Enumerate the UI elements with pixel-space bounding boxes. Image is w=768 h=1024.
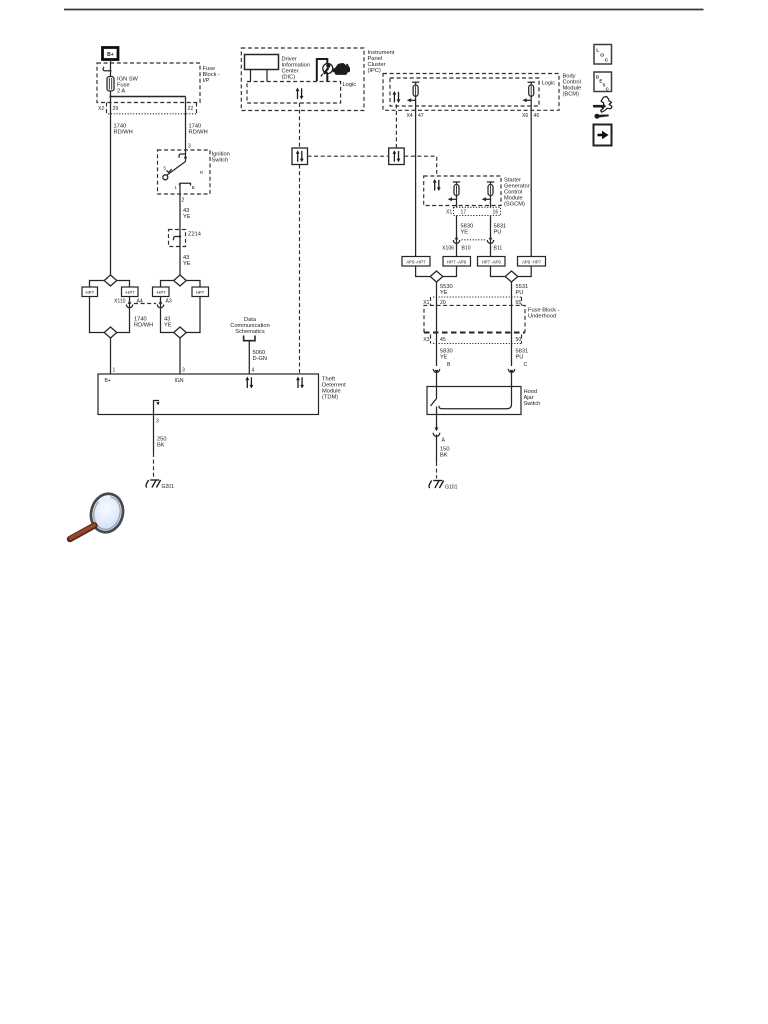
security car icon — [333, 63, 350, 75]
fuse clip hook — [103, 67, 111, 71]
svg-text:C: C — [524, 362, 528, 368]
svg-text:D-GN: D-GN — [253, 356, 268, 362]
body control module box — [383, 74, 559, 111]
svg-text:47: 47 — [418, 113, 424, 119]
ignition switch box — [158, 150, 211, 194]
svg-text:(BCM): (BCM) — [563, 92, 580, 98]
svg-text:X2: X2 — [98, 106, 104, 112]
connector clips at hood switch — [433, 369, 440, 374]
svg-text:2 A: 2 A — [117, 89, 125, 95]
wire 1740 RD/WH left — [110, 97, 112, 276]
IPC serial data arrows — [296, 88, 304, 100]
splice diamond upper right — [174, 275, 187, 286]
theft deterrent module box — [98, 374, 319, 415]
BCM serial data arrows — [393, 91, 401, 103]
fuse block underhood box — [424, 305, 525, 332]
svg-text:3: 3 — [188, 144, 191, 150]
svg-text:YE: YE — [164, 323, 172, 329]
svg-text:A4: A4 — [137, 299, 143, 305]
svg-text:L: L — [596, 48, 599, 54]
connector box HP7-AP9 b — [478, 257, 506, 267]
comm node box right — [389, 148, 405, 165]
svg-text:A3: A3 — [166, 299, 172, 305]
SGCM driver pin 17 — [448, 182, 461, 207]
svg-text:(DIC): (DIC) — [282, 75, 296, 81]
wire to TDM pin3 — [179, 338, 181, 374]
TDM internal switch to pin3 — [154, 401, 160, 415]
merge wires to right diamonds — [416, 266, 431, 277]
hood switch output — [436, 407, 438, 431]
IPC logic box — [247, 82, 341, 104]
icon arrow box — [594, 125, 612, 146]
wire 250 BK — [153, 415, 155, 454]
inline connector X110 pins A4 A3 — [129, 297, 131, 328]
fuse block IP dashed box — [97, 63, 200, 103]
svg-text:(SGCM): (SGCM) — [504, 202, 525, 208]
icon DESC box — [594, 72, 612, 92]
svg-text:1: 1 — [113, 368, 116, 374]
svg-text:3: 3 — [156, 419, 159, 425]
wire 5531 PU — [511, 282, 513, 366]
wire 5530 YE — [436, 282, 438, 366]
splice diamond lower right — [174, 327, 187, 338]
svg-text:G201: G201 — [162, 484, 175, 490]
svg-text:X110: X110 — [114, 299, 126, 305]
security indicator icon — [317, 59, 333, 81]
svg-text:X106: X106 — [442, 246, 454, 252]
SGCM driver pin 16 — [482, 182, 495, 207]
svg-text:YE: YE — [440, 355, 448, 361]
svg-text:RD/WH: RD/WH — [189, 130, 208, 136]
starter generator control module box — [424, 176, 501, 206]
icon LOC box — [594, 45, 612, 65]
underhood connector row top — [433, 296, 522, 298]
svg-text:50: 50 — [516, 337, 522, 343]
wire 43 YE upper — [179, 194, 181, 230]
instrument panel cluster box — [241, 48, 364, 111]
dashed serial data wire IPC down — [299, 103, 301, 148]
hood ajar switch box — [427, 387, 521, 415]
BCM driver right pin 46 — [522, 82, 535, 110]
svg-text:HP7 -AP9: HP7 -AP9 — [447, 260, 467, 265]
branch wires to HP7 row — [90, 281, 105, 288]
svg-text:(TDM): (TDM) — [322, 395, 338, 401]
connector box HP7-AP9 a — [443, 257, 471, 267]
wire 43 YE lower — [179, 247, 181, 276]
connector box HP7 d — [192, 287, 209, 297]
magnifier icon — [70, 490, 127, 539]
connector box HP7 c — [153, 287, 170, 297]
wire 5060 D-GN — [248, 341, 250, 374]
wire 150 BK — [436, 435, 438, 463]
svg-text:PU: PU — [516, 355, 524, 361]
svg-text:YE: YE — [183, 261, 191, 267]
svg-text:R: R — [200, 170, 203, 175]
svg-text:22: 22 — [188, 106, 194, 112]
connector box HP7 a — [82, 287, 98, 297]
svg-text:YE: YE — [461, 230, 469, 236]
BCM logic box — [390, 78, 539, 106]
svg-text:Logic: Logic — [542, 81, 556, 87]
svg-text:G101: G101 — [445, 485, 458, 491]
svg-text:A: A — [442, 438, 446, 444]
connector box AP9-HP7 right — [518, 257, 546, 267]
BCM driver left pin 47 — [407, 82, 420, 110]
wire 1740 RD/WH right — [185, 97, 187, 151]
svg-text:BK: BK — [157, 443, 165, 449]
svg-text:B11: B11 — [494, 246, 503, 252]
svg-text:B+: B+ — [107, 52, 114, 58]
battery feed B+ — [103, 48, 119, 60]
svg-text:X4: X4 — [407, 113, 413, 119]
icon tools wrench and screwdriver — [594, 97, 612, 119]
hood switch internals — [436, 387, 438, 399]
SGCM pin row — [454, 207, 501, 215]
svg-text:Switch: Switch — [524, 401, 541, 407]
dashed bus comm box up to BCM — [395, 104, 397, 148]
svg-text:YE: YE — [440, 290, 448, 296]
svg-text:(IPC): (IPC) — [368, 68, 381, 74]
splice diamond right left — [430, 271, 443, 282]
svg-text:B+: B+ — [105, 378, 111, 384]
svg-text:Z214: Z214 — [188, 232, 201, 238]
splice diamond lower left — [104, 327, 117, 338]
svg-text:AP9 -HP7: AP9 -HP7 — [406, 260, 426, 265]
connector box HP7 b — [122, 287, 139, 297]
fuse IGN SW 2A — [107, 77, 114, 92]
svg-text:I/P: I/P — [203, 78, 210, 84]
svg-text:X6: X6 — [522, 113, 528, 119]
SGCM serial data arrows — [433, 179, 441, 191]
svg-text:PU: PU — [494, 230, 502, 236]
inline connector X106 pins B10 B11 — [453, 240, 459, 243]
svg-text:B: B — [192, 185, 195, 190]
svg-text:PU: PU — [516, 290, 524, 296]
dashed bus comm box right to SGCM — [404, 156, 437, 176]
svg-text:BK: BK — [440, 453, 448, 459]
svg-text:AP9 -HP7: AP9 -HP7 — [522, 260, 542, 265]
wire fuse output split — [110, 91, 112, 97]
wire to TDM pin1 — [110, 338, 112, 374]
TDM serial data arrows — [245, 377, 253, 389]
svg-text:IGN: IGN — [175, 378, 184, 384]
svg-text:2: 2 — [182, 198, 185, 204]
svg-text:C: C — [605, 58, 609, 64]
svg-text:3: 3 — [182, 368, 185, 374]
BCM output wires — [415, 110, 417, 256]
svg-text:X1: X1 — [446, 210, 452, 216]
ground G201 — [146, 480, 161, 488]
svg-text:Switch: Switch — [212, 158, 229, 164]
svg-text:4: 4 — [252, 368, 255, 374]
svg-text:17: 17 — [461, 210, 467, 216]
svg-text:HP7: HP7 — [86, 290, 95, 295]
wire 5830 YE upper — [456, 216, 458, 257]
svg-text:-HP7: -HP7 — [156, 290, 166, 295]
svg-text:-HP7: -HP7 — [125, 290, 135, 295]
svg-text:Schematics: Schematics — [235, 329, 265, 335]
dashed serial data wire to TDM — [299, 165, 301, 375]
svg-text:46: 46 — [534, 113, 540, 119]
svg-text:B10: B10 — [462, 246, 471, 252]
svg-text:RD/WH: RD/WH — [134, 323, 153, 329]
svg-text:Logic: Logic — [343, 82, 357, 88]
svg-text:Underhood: Underhood — [528, 314, 556, 320]
wire B+ to fuse — [110, 60, 112, 78]
svg-text:X3: X3 — [423, 337, 429, 343]
splice diamond right right — [505, 271, 518, 282]
splice diamond upper left — [104, 275, 117, 286]
svg-text:29: 29 — [113, 106, 119, 112]
svg-text:RD/WH: RD/WH — [114, 130, 133, 136]
ignition switch internals — [163, 150, 203, 194]
svg-text:O: O — [600, 53, 604, 59]
connector box AP9-HP7 left — [402, 257, 430, 267]
svg-text:45: 45 — [440, 337, 446, 343]
connector clip pin A — [435, 427, 439, 431]
driver information center display — [245, 55, 279, 70]
splice Z214 — [169, 230, 186, 247]
merge wires lower left group — [90, 297, 105, 333]
svg-text:HP7: HP7 — [196, 290, 205, 295]
dashed bus between comm boxes — [308, 155, 389, 157]
connector row X2 — [106, 103, 108, 114]
comm node box left — [292, 148, 308, 165]
wire 5831 PU upper — [490, 216, 492, 257]
data bus bracket — [244, 336, 255, 341]
svg-text:16: 16 — [493, 210, 499, 216]
ground G101 — [429, 481, 444, 489]
top rule — [64, 9, 704, 11]
svg-text:HP7 -AP9: HP7 -AP9 — [482, 260, 502, 265]
svg-text:B: B — [447, 362, 451, 368]
svg-text:YE: YE — [183, 214, 191, 220]
